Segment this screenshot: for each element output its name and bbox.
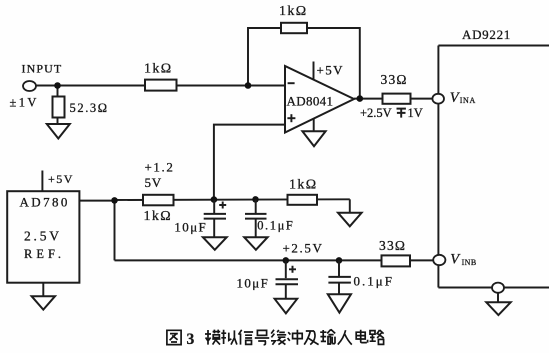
node AD780 output — [111, 197, 118, 204]
svg-text:33Ω: 33Ω — [381, 72, 408, 87]
wire AD780 output to node — [79, 200, 114, 202]
ground at 0.1uF bottom — [328, 294, 351, 312]
wire node down to +2.5V rail — [114, 201, 116, 261]
svg-text:10μF: 10μF — [174, 220, 207, 235]
svg-text:V: V — [450, 252, 461, 268]
wire +1.25V divider rail — [115, 198, 350, 201]
svg-text:INA: INA — [460, 96, 476, 105]
cjk char hao — [255, 330, 269, 344]
terminal analog ground — [492, 283, 504, 293]
node output junction — [357, 95, 364, 102]
resistor 52.3 ohm — [53, 97, 65, 118]
capacitor 10uF top polarized — [213, 200, 215, 213]
ground at 10uF top — [203, 237, 227, 250]
resistor 1k ohm divider top — [143, 195, 174, 206]
capacitor 10uF bottom polarized — [285, 260, 287, 278]
wire op-amp output to VINA — [354, 98, 433, 100]
ground at op-amp — [302, 131, 325, 146]
resistor 1k ohm feedback — [281, 23, 307, 33]
wire feedback loop — [248, 28, 360, 99]
svg-text:1kΩ: 1kΩ — [289, 178, 318, 193]
cjk char huan — [271, 330, 286, 345]
wire divider ground stem — [349, 199, 351, 213]
ground at analog ground terminal — [486, 302, 510, 315]
ground at 0.1uF top — [244, 237, 267, 250]
ground at 52.3 ohm — [47, 124, 70, 139]
svg-text:+2.5V: +2.5V — [283, 241, 324, 256]
svg-text:2.5V: 2.5V — [24, 229, 62, 244]
wire +2.5V rail — [115, 259, 435, 261]
cjk char lu — [370, 330, 384, 344]
terminal VINB — [433, 255, 445, 265]
wire AD9221 input bus vertical — [437, 46, 439, 288]
svg-text:+5V: +5V — [48, 172, 74, 186]
cjk char dian — [356, 330, 367, 343]
wire op-amp noninverting input from +1.25V node — [214, 125, 285, 200]
node +1.25V junction at 10uF — [211, 196, 218, 203]
resistor 33 ohm channel A — [383, 94, 411, 104]
wire AD780 +5V stub — [41, 171, 43, 192]
capacitor 0.1uF top — [255, 199, 257, 213]
svg-text:+2.5V: +2.5V — [360, 106, 392, 120]
svg-text:INB: INB — [462, 258, 477, 267]
svg-text:INPUT: INPUT — [22, 62, 63, 76]
ground at divider — [338, 213, 362, 227]
node junction input/shunt — [54, 82, 61, 89]
capacitor 0.1uF bottom — [338, 260, 340, 276]
cjk char xin — [239, 330, 254, 345]
svg-text:REF.: REF. — [24, 247, 65, 261]
caption figure 3 chinese: tu 3 moni xinhao huanchong ji shuru dianlu — [167, 329, 384, 348]
svg-text:5V: 5V — [145, 175, 163, 190]
node junction at 0.1uF bottom — [336, 257, 343, 264]
input terminal — [23, 81, 36, 91]
cjk char shu — [320, 329, 335, 344]
cjk char ji — [304, 331, 318, 345]
svg-text:1kΩ: 1kΩ — [144, 209, 173, 224]
node junction feedback/inverting input — [245, 82, 252, 89]
AD780 box — [7, 191, 79, 283]
cjk char ru — [338, 330, 352, 344]
svg-text:AD9221: AD9221 — [462, 27, 511, 42]
cjk char ni — [221, 330, 237, 345]
terminal VINA — [432, 94, 444, 104]
op-amp negative supply pin to ground — [313, 119, 315, 132]
wire main input line — [35, 85, 285, 87]
resistor 33 ohm channel B — [382, 255, 411, 266]
wire 52.3 ohm shunt branch — [57, 86, 59, 125]
node junction at 10uF bottom — [283, 257, 290, 264]
svg-text:0.1μF: 0.1μF — [354, 273, 394, 288]
svg-text:1V: 1V — [408, 106, 423, 120]
cjk char tu (fig) — [167, 330, 181, 344]
svg-text:0.1μF: 0.1μF — [257, 218, 294, 232]
resistor 1k ohm to ground — [288, 195, 318, 205]
node junction at 0.1uF top — [252, 196, 259, 203]
svg-text:3: 3 — [187, 331, 195, 348]
svg-text:33Ω: 33Ω — [379, 238, 406, 253]
svg-text:1kΩ: 1kΩ — [144, 61, 173, 76]
wire bottom right horizontal to ground terminal — [438, 287, 549, 289]
svg-text:10μF: 10μF — [237, 275, 270, 290]
op-amp U1 AD8041 — [285, 66, 354, 133]
cjk char mo — [205, 330, 220, 345]
ground at AD780 — [42, 283, 44, 296]
resistor 1k ohm input — [145, 80, 177, 91]
op-amp +5V pin — [313, 62, 315, 80]
ground at 10uF bottom — [275, 299, 298, 314]
svg-text:1kΩ: 1kΩ — [279, 4, 308, 19]
svg-text:AD8041: AD8041 — [287, 94, 334, 109]
svg-text:+5V: +5V — [317, 63, 344, 78]
svg-text:±1V: ±1V — [10, 95, 39, 109]
svg-text:52.3Ω: 52.3Ω — [70, 101, 109, 115]
svg-text:AD780: AD780 — [20, 195, 70, 210]
cjk char chong — [288, 330, 303, 345]
wire AD9221 top horizontal — [438, 45, 549, 47]
svg-text:+1.2: +1.2 — [145, 160, 175, 175]
